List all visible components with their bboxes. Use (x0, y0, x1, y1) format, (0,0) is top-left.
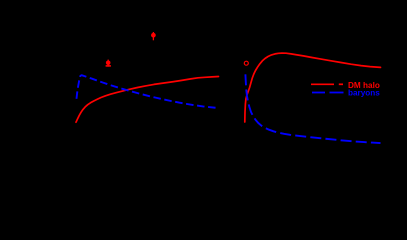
legend red line sample (311, 83, 343, 85)
data point C (open circle) (244, 61, 248, 65)
svg-text:baryons: baryons (348, 89, 380, 98)
right panel DM halo curve (red solid) (245, 53, 381, 122)
data point A (filled circle with error bar) (106, 60, 111, 67)
right panel baryons curve (blue dashed) (245, 74, 380, 143)
left panel baryons curve (blue dashed) (77, 75, 217, 108)
legend blue dashed sample (312, 92, 344, 94)
left panel DM halo curve (red solid) (76, 77, 219, 123)
data point B (filled circle with error bar) (151, 32, 156, 40)
